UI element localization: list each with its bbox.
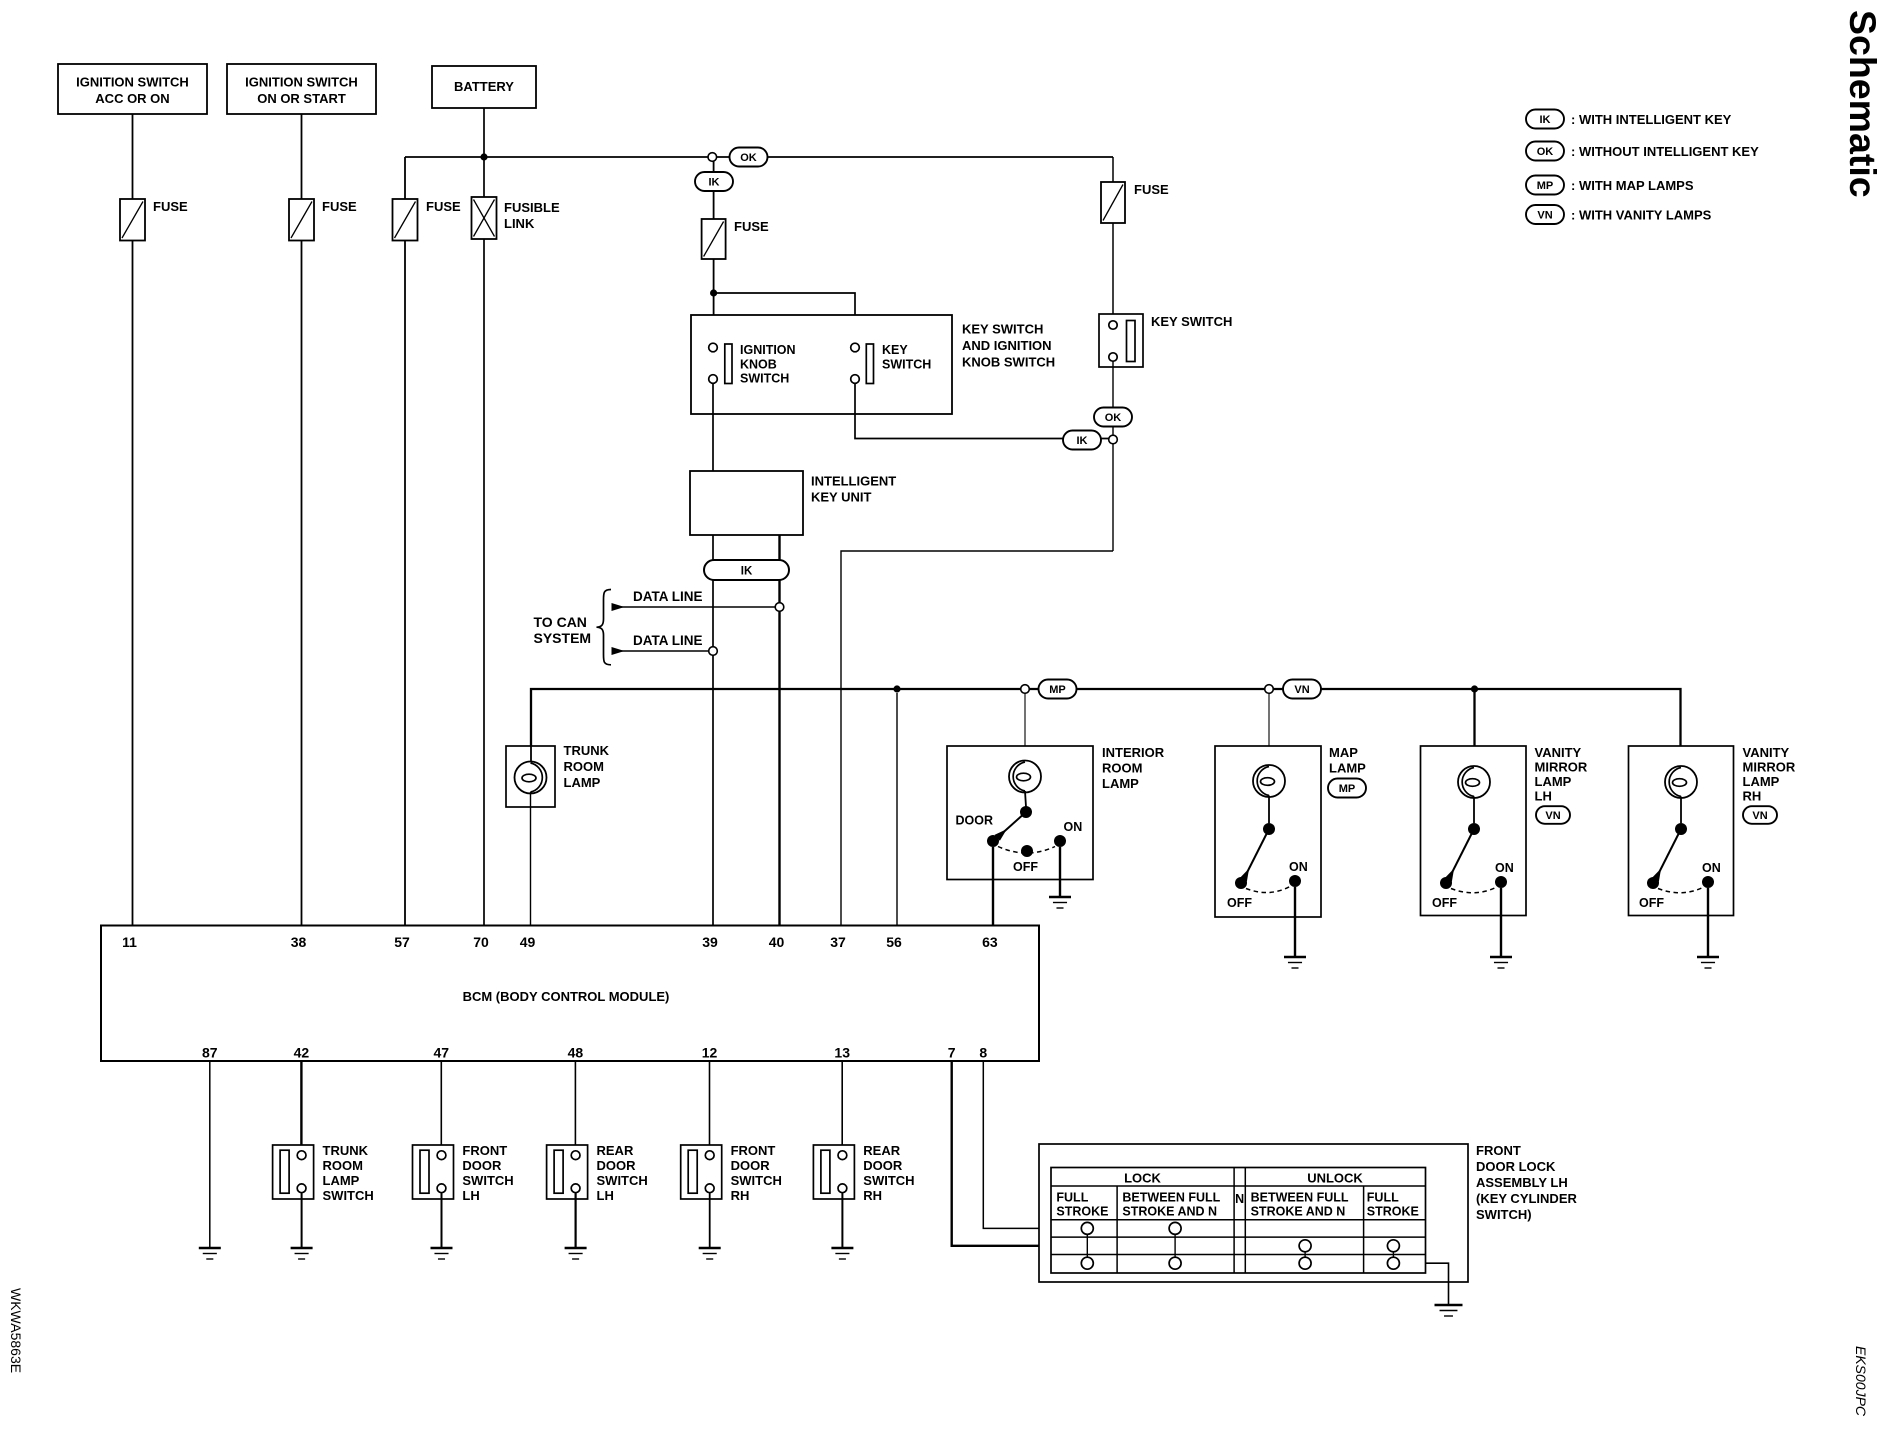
svg-text:OK: OK (740, 152, 757, 164)
ground: front door switch LH (431, 1248, 453, 1259)
wire: branch to key switch contact (714, 293, 855, 343)
svg-text:BATTERY: BATTERY (454, 79, 514, 94)
switch: interior lamp selector (956, 806, 1083, 874)
wire: DOOR contact to BCM pin 63 (992, 847, 994, 926)
svg-text:57: 57 (394, 934, 410, 950)
label: interior room lamp (1102, 745, 1165, 791)
legend: IK description (1571, 112, 1732, 127)
svg-text:42: 42 (294, 1045, 310, 1061)
wire: front door switch RH to ground (709, 1193, 711, 1247)
label: to CAN system (534, 614, 592, 646)
label: N column (1235, 1192, 1244, 1206)
wire: bus to BCM pin 56 (896, 693, 898, 926)
label: full stroke (unlock) (1367, 1191, 1419, 1219)
svg-text:KEY: KEY (882, 343, 908, 357)
contacts: lock between full stroke and N (1169, 1222, 1181, 1269)
svg-text:MIRROR: MIRROR (1743, 760, 1796, 775)
svg-text:KEY UNIT: KEY UNIT (811, 490, 871, 505)
legend: MP variant tag (1526, 176, 1564, 195)
svg-text:STROKE AND N: STROKE AND N (1251, 1205, 1346, 1219)
wire: IK drop to fuse F4 (713, 157, 715, 219)
wire: BCM pin 42 to trunk room lamp switch (300, 1061, 302, 1151)
svg-text:: WITH INTELLIGENT KEY: : WITH INTELLIGENT KEY (1571, 112, 1732, 127)
switch: vanity LH (1432, 797, 1514, 911)
wire: trunk switch to ground (301, 1193, 303, 1247)
svg-text:39: 39 (702, 934, 718, 950)
brace: CAN bracket (597, 590, 612, 665)
wire: fusible link to BCM pin 70 (483, 239, 485, 926)
label: vanity mirror lamp RH (1743, 745, 1796, 804)
wire: IGN feed to fuse (301, 114, 303, 200)
svg-text:87: 87 (202, 1045, 218, 1061)
svg-text:7: 7 (948, 1045, 956, 1061)
svg-text:INTELLIGENT: INTELLIGENT (811, 474, 896, 489)
svg-text:LOCK: LOCK (1124, 1171, 1161, 1186)
contacts: lock full stroke (1081, 1222, 1093, 1269)
label: vanity mirror lamp LH (1535, 745, 1588, 804)
svg-text:: WITH MAP LAMPS: : WITH MAP LAMPS (1571, 178, 1694, 193)
box: ignition switch ON or START (227, 64, 376, 114)
legend: MP description (1571, 178, 1694, 193)
junction: battery node (480, 153, 487, 160)
ground: rear door switch LH (565, 1248, 587, 1259)
wire: room lamp supply bus (531, 689, 1681, 766)
wire: bus to fuse F5 (1112, 157, 1114, 182)
svg-text:MP: MP (1537, 180, 1554, 192)
svg-text:FRONT: FRONT (731, 1143, 776, 1158)
label: map lamp (1329, 745, 1366, 776)
svg-text:IK: IK (1077, 435, 1088, 447)
wire: fuse F5 to key switch (1112, 223, 1114, 314)
svg-text:Schematic: Schematic (1842, 10, 1884, 198)
svg-text:IK: IK (741, 566, 753, 578)
fusible link FL (472, 197, 560, 239)
svg-text:49: 49 (520, 934, 536, 950)
code: EKS00JPC (1853, 1346, 1869, 1417)
svg-text:VN: VN (1537, 209, 1552, 221)
svg-text:EKS00JPC: EKS00JPC (1853, 1346, 1869, 1417)
svg-text:SWITCH): SWITCH) (1476, 1207, 1532, 1222)
ground: trunk switch (291, 1248, 313, 1259)
svg-text:IGNITION: IGNITION (740, 343, 796, 357)
svg-text:: WITHOUT INTELLIGENT KEY: : WITHOUT INTELLIGENT KEY (1571, 144, 1759, 159)
svg-text:38: 38 (291, 934, 307, 950)
component: rear door switch RH (813, 1145, 854, 1199)
node: map lamp tap (1265, 685, 1274, 694)
svg-text:IGNITION SWITCH: IGNITION SWITCH (76, 75, 189, 90)
svg-text:RH: RH (863, 1188, 882, 1203)
box: battery (432, 66, 536, 108)
ground: vanity RH (1697, 957, 1719, 968)
label: between full stroke and N (unlock) (1251, 1191, 1349, 1219)
contacts: unlock full stroke (1387, 1240, 1399, 1269)
svg-text:ROOM: ROOM (564, 759, 604, 774)
svg-text:SWITCH: SWITCH (462, 1173, 513, 1188)
fuse F5 (1101, 182, 1169, 223)
box: map lamp (1215, 746, 1321, 917)
svg-text:BETWEEN FULL: BETWEEN FULL (1251, 1191, 1349, 1205)
svg-text:FUSIBLE: FUSIBLE (504, 200, 560, 215)
variant tag MP on bus (1039, 680, 1077, 699)
svg-text:VN: VN (1752, 810, 1767, 822)
wire: fuse F4 to ignition knob switch (713, 259, 715, 343)
svg-text:VANITY: VANITY (1535, 745, 1582, 760)
component: key switch (OK variant) (1099, 314, 1232, 367)
wire: knob switch to intelligent key unit (712, 383, 714, 471)
svg-text:56: 56 (886, 934, 902, 950)
box: interior room lamp (947, 746, 1093, 880)
svg-text:FUSE: FUSE (322, 199, 357, 214)
svg-text:FUSE: FUSE (426, 199, 461, 214)
label: between full stroke and N (lock) (1122, 1191, 1220, 1219)
box: intelligent key unit U1 (690, 471, 896, 535)
lamp: interior room lamp bulb (1009, 761, 1041, 793)
component: front door switch RH (681, 1145, 722, 1199)
ground: key cylinder switch (1435, 1305, 1463, 1316)
svg-text:INTERIOR: INTERIOR (1102, 745, 1165, 760)
fuse F4 (702, 219, 769, 259)
wire: BCM pin 48 to rear door switch LH (574, 1061, 576, 1151)
svg-text:: WITH VANITY LAMPS: : WITH VANITY LAMPS (1571, 207, 1712, 222)
svg-text:KNOB: KNOB (740, 357, 777, 371)
svg-text:OFF: OFF (1432, 896, 1457, 910)
svg-text:12: 12 (702, 1045, 718, 1061)
wire: BCM pin 12 to front door switch RH (709, 1061, 711, 1151)
fuse F3 (393, 199, 462, 241)
junction: pin 56 tap (893, 685, 900, 692)
svg-text:TRUNK: TRUNK (323, 1143, 369, 1158)
svg-text:SYSTEM: SYSTEM (534, 630, 592, 646)
label: LOCK header (1124, 1171, 1161, 1186)
svg-text:KNOB SWITCH: KNOB SWITCH (962, 355, 1055, 370)
wire: vanity LH ON to ground (1500, 888, 1502, 956)
wire: key switch to IK tag (855, 383, 1109, 438)
svg-text:LAMP: LAMP (1743, 774, 1780, 789)
wire: lamp to switch common (1025, 791, 1026, 807)
svg-text:8: 8 (979, 1045, 987, 1061)
label: UNLOCK header (1307, 1171, 1363, 1186)
svg-text:SWITCH: SWITCH (597, 1173, 648, 1188)
svg-text:DOOR LOCK: DOOR LOCK (1476, 1159, 1556, 1174)
svg-text:BETWEEN FULL: BETWEEN FULL (1122, 1191, 1220, 1205)
wire: trunk lamp to BCM pin 49 (530, 792, 532, 926)
svg-text:VN: VN (1545, 810, 1560, 822)
legend: VN description (1571, 207, 1712, 222)
node: data line 1 tap (775, 603, 784, 612)
variant tag IK capsule (704, 560, 789, 580)
svg-text:LAMP: LAMP (323, 1173, 360, 1188)
svg-text:LH: LH (597, 1188, 614, 1203)
svg-text:DOOR: DOOR (956, 814, 994, 828)
switch: map lamp (1227, 796, 1308, 911)
label: front door switch LH (462, 1143, 513, 1203)
label: front door lock assembly LH (key cylinder switch) (1476, 1143, 1577, 1222)
wire: rear door switch LH to ground (574, 1193, 576, 1247)
svg-text:AND IGNITION: AND IGNITION (962, 338, 1052, 353)
svg-text:DOOR: DOOR (462, 1158, 502, 1173)
svg-text:FUSE: FUSE (734, 219, 769, 234)
svg-text:SWITCH: SWITCH (863, 1173, 914, 1188)
box: key switch and ignition knob switch (691, 315, 1055, 414)
svg-text:N: N (1235, 1192, 1244, 1206)
svg-text:VN: VN (1294, 684, 1309, 696)
wire: fuse F2 to BCM pin 38 (301, 241, 303, 926)
svg-text:IK: IK (1540, 114, 1551, 126)
ground: rear door switch RH (831, 1248, 853, 1259)
svg-text:SWITCH: SWITCH (740, 372, 789, 386)
svg-text:OFF: OFF (1227, 896, 1252, 910)
wire: BCM pin 87 to ground (209, 1061, 211, 1247)
lamp: vanity RH bulb (1665, 766, 1697, 798)
legend: OK variant tag (1526, 142, 1564, 161)
variant tag VN (vanity RH) (1743, 806, 1777, 824)
lamp: vanity LH bulb (1458, 766, 1490, 798)
svg-text:13: 13 (834, 1045, 850, 1061)
svg-text:DOOR: DOOR (731, 1158, 771, 1173)
box: trunk room lamp (506, 746, 555, 807)
ground: pin 87 (199, 1248, 221, 1259)
ground: map lamp (1284, 957, 1306, 968)
ground: vanity LH (1490, 957, 1512, 968)
contacts: unlock between full stroke and N (1299, 1240, 1311, 1269)
svg-text:DOOR: DOOR (597, 1158, 637, 1173)
box: BCM (body control module) (101, 926, 1039, 1062)
svg-text:ROOM: ROOM (1102, 761, 1142, 776)
svg-text:REAR: REAR (597, 1143, 634, 1158)
svg-text:37: 37 (830, 934, 846, 950)
svg-text:LH: LH (462, 1188, 479, 1203)
svg-text:FULL: FULL (1056, 1191, 1088, 1205)
wire: BCM pin 47 to front door switch LH (440, 1061, 442, 1151)
svg-text:11: 11 (122, 934, 137, 950)
node: OK/IK split (708, 153, 717, 162)
variant tag IK (key switch path) (1063, 431, 1101, 450)
svg-text:SWITCH: SWITCH (731, 1173, 782, 1188)
key switch contacts (851, 343, 932, 384)
wire: data line 2 arrow (612, 633, 708, 651)
wire: fuse F1 to BCM pin 11 (132, 241, 134, 926)
switch: vanity RH (1639, 797, 1721, 911)
svg-text:STROKE: STROKE (1367, 1205, 1419, 1219)
variant tag MP (map lamp) (1328, 779, 1366, 798)
wire: OK path to BCM pin 37 (841, 551, 1113, 926)
ignition knob switch contacts (709, 343, 796, 386)
variant tag OK (without intelligent key) (730, 148, 768, 167)
svg-text:70: 70 (473, 934, 489, 950)
label: rear door switch RH (863, 1143, 914, 1203)
svg-text:TRUNK: TRUNK (564, 743, 610, 758)
junction: knob/key switch split (710, 289, 717, 296)
svg-text:IK: IK (709, 176, 720, 188)
svg-text:UNLOCK: UNLOCK (1307, 1171, 1363, 1186)
wire: vanity RH ON to ground (1707, 888, 1709, 956)
node: data line 2 tap (709, 647, 718, 656)
box: ignition switch ACC or ON (58, 64, 207, 114)
legend: OK description (1571, 144, 1759, 159)
table: key cylinder switch (1051, 1168, 1426, 1274)
svg-text:LAMP: LAMP (1102, 776, 1139, 791)
pin numbers: BCM bottom row (202, 1045, 987, 1061)
ground: front door switch RH (699, 1248, 721, 1259)
svg-text:IGNITION SWITCH: IGNITION SWITCH (245, 75, 358, 90)
svg-text:LAMP: LAMP (1329, 761, 1366, 776)
svg-text:LINK: LINK (504, 216, 535, 231)
legend: VN variant tag (1526, 205, 1564, 224)
fuse F2 (289, 199, 357, 241)
node: OK/IK join (1109, 435, 1118, 444)
svg-text:KEY SWITCH: KEY SWITCH (962, 322, 1043, 337)
wire: fuse F3 to BCM pin 57 (404, 241, 406, 926)
component: trunk room lamp switch (273, 1145, 314, 1199)
fuse F1 (120, 199, 188, 241)
svg-text:OFF: OFF (1013, 860, 1038, 874)
wire: BCM pin 13 to rear door switch RH (841, 1061, 843, 1151)
svg-text:OK: OK (1537, 146, 1554, 158)
svg-text:FRONT: FRONT (462, 1143, 507, 1158)
variant tag OK (key switch path) (1094, 408, 1132, 427)
svg-text:FUSE: FUSE (1134, 182, 1169, 197)
svg-text:MP: MP (1049, 684, 1066, 696)
label: front door switch RH (731, 1143, 782, 1203)
svg-text:VANITY: VANITY (1743, 745, 1790, 760)
svg-text:ON: ON (1064, 820, 1083, 834)
wire: ACC feed to fuse (132, 114, 134, 200)
wire: BCM pin 8 to key cylinder switch row A (983, 1061, 1051, 1228)
svg-text:SWITCH: SWITCH (882, 357, 931, 371)
node: interior lamp tap (1021, 685, 1030, 694)
code: WKWA5863E (8, 1288, 24, 1373)
wire: key unit output right to BCM pin 40 (778, 535, 780, 926)
svg-text:MIRROR: MIRROR (1535, 760, 1588, 775)
label: full stroke (lock) (1056, 1191, 1108, 1219)
svg-text:RH: RH (731, 1188, 750, 1203)
wire: key cylinder switch to ground (1426, 1263, 1449, 1304)
svg-text:FRONT: FRONT (1476, 1143, 1521, 1158)
svg-text:ON: ON (1702, 861, 1721, 875)
variant tag VN (vanity LH) (1536, 806, 1570, 824)
svg-text:MAP: MAP (1329, 745, 1358, 760)
title: Schematic (1842, 10, 1884, 198)
wire: bus to vanity lamp LH (1473, 689, 1475, 767)
pin numbers: BCM top row (122, 934, 998, 950)
svg-text:LH: LH (1535, 789, 1552, 804)
svg-text:DOOR: DOOR (863, 1158, 903, 1173)
svg-text:STROKE AND N: STROKE AND N (1122, 1205, 1217, 1219)
legend: IK variant tag (1526, 110, 1564, 129)
label: trunk room lamp (564, 743, 610, 790)
svg-text:ON: ON (1289, 860, 1308, 874)
svg-text:OFF: OFF (1639, 896, 1664, 910)
svg-text:LAMP: LAMP (1535, 774, 1572, 789)
lamp: trunk room lamp bulb (515, 746, 547, 794)
svg-text:ASSEMBLY LH: ASSEMBLY LH (1476, 1175, 1568, 1190)
wire: battery feed (483, 108, 485, 197)
lamp: map lamp bulb (1253, 765, 1285, 797)
wire: rear door switch RH to ground (841, 1193, 843, 1247)
box: front door lock assembly LH (1039, 1144, 1468, 1282)
svg-text:STROKE: STROKE (1056, 1205, 1108, 1219)
box: vanity mirror lamp RH (1629, 746, 1734, 916)
svg-text:ON OR START: ON OR START (257, 91, 346, 106)
wire: key unit output left to BCM pin 39 (712, 535, 714, 926)
svg-text:ACC OR ON: ACC OR ON (95, 91, 169, 106)
svg-text:WKWA5863E: WKWA5863E (8, 1288, 24, 1373)
svg-text:OK: OK (1105, 412, 1122, 424)
wire: bus to interior room lamp (1024, 693, 1026, 762)
component: front door switch LH (413, 1145, 454, 1199)
component: rear door switch LH (547, 1145, 588, 1199)
variant tag IK (with intelligent key) (695, 172, 733, 191)
svg-text:SWITCH: SWITCH (323, 1188, 374, 1203)
junction: vanity LH tap (1471, 685, 1478, 692)
box: vanity mirror lamp LH (1421, 746, 1527, 916)
wire: bus to map lamp (1268, 693, 1270, 766)
svg-text:ON: ON (1495, 861, 1514, 875)
svg-text:BCM (BODY CONTROL MODULE): BCM (BODY CONTROL MODULE) (463, 989, 670, 1004)
wire: battery bus horizontal (405, 157, 1113, 200)
wire: data line 1 arrow (612, 589, 775, 607)
svg-text:KEY SWITCH: KEY SWITCH (1151, 314, 1232, 329)
svg-text:63: 63 (982, 934, 998, 950)
label: trunk room lamp switch (323, 1143, 374, 1203)
wire: ON contact to ground (1059, 847, 1061, 897)
wire: key switch down to OK node (1112, 361, 1114, 551)
ground: interior room lamp (1049, 897, 1071, 908)
svg-text:DATA LINE: DATA LINE (633, 589, 703, 604)
svg-text:(KEY CYLINDER: (KEY CYLINDER (1476, 1191, 1577, 1206)
svg-text:FULL: FULL (1367, 1191, 1399, 1205)
svg-text:TO CAN: TO CAN (534, 614, 587, 630)
svg-text:MP: MP (1339, 783, 1356, 795)
svg-text:DATA LINE: DATA LINE (633, 633, 703, 648)
label: rear door switch LH (597, 1143, 648, 1203)
svg-text:FUSE: FUSE (153, 199, 188, 214)
wire: BCM pin 7 to key cylinder switch row B (952, 1061, 1051, 1246)
svg-text:40: 40 (769, 934, 785, 950)
variant tag VN on bus (1283, 680, 1321, 699)
svg-text:48: 48 (568, 1045, 584, 1061)
svg-text:47: 47 (434, 1045, 450, 1061)
svg-text:RH: RH (1743, 789, 1762, 804)
svg-text:LAMP: LAMP (564, 775, 601, 790)
wire: front door switch LH to ground (441, 1193, 443, 1247)
svg-text:ROOM: ROOM (323, 1158, 363, 1173)
svg-text:REAR: REAR (863, 1143, 900, 1158)
wire: map lamp ON to ground (1294, 887, 1296, 956)
